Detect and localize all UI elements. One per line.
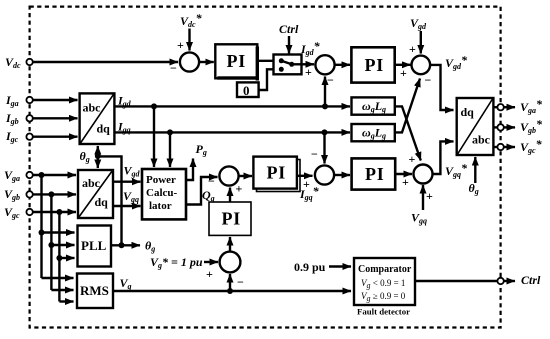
wire Vdc to sum1 <box>33 61 178 63</box>
wire Qg out <box>186 177 218 205</box>
arrow Vgc* <box>504 146 515 148</box>
svg-text:Ctrl: Ctrl <box>279 22 299 36</box>
block omega-g Lg lower <box>352 124 395 141</box>
wire sum4 to dq/abc (Vgq*) <box>433 141 454 174</box>
wire Pg out <box>186 159 193 181</box>
wire Vgc to RMS <box>59 300 73 302</box>
svg-text:+: + <box>402 175 409 189</box>
wire Igb to abc/dq <box>33 117 78 119</box>
svg-text:PI: PI <box>365 164 385 184</box>
wire Igd feedback up to sum2 <box>324 77 326 107</box>
wire 0.9pu into comparator <box>329 265 351 267</box>
svg-text:−: − <box>208 174 215 188</box>
wire Igc to abc/dq <box>33 135 78 137</box>
junction Vgc to PLL <box>56 255 62 261</box>
node Igc input <box>26 134 32 140</box>
block abc/dq voltage transform <box>78 170 113 218</box>
svg-text:+: + <box>305 65 312 79</box>
wire PI2 to sum3 <box>395 64 411 66</box>
wire Vgb* out <box>493 126 497 128</box>
wire Vga to abc/dq <box>33 174 76 176</box>
svg-text:dq: dq <box>461 105 475 119</box>
wire Igq feedback down to sumB <box>323 132 325 163</box>
op-block PI1 dc-voltage <box>215 44 259 80</box>
arrow Vga* <box>504 106 515 108</box>
wire Vgc* out <box>493 146 497 148</box>
svg-text:PI: PI <box>267 163 287 183</box>
wire Vgb drop <box>50 194 52 290</box>
svg-text:PI: PI <box>227 51 247 71</box>
wire omega-Lg lower cross up to sum3 <box>395 79 420 133</box>
wire sumB to PI3 <box>334 174 350 176</box>
arrow Ctrl out <box>504 280 515 282</box>
wire theta double arrow between transforms <box>97 146 99 157</box>
svg-text:−: − <box>425 73 432 87</box>
wire Igd row <box>114 105 350 107</box>
svg-text:+: + <box>400 66 407 80</box>
wire Vgc to abc/dq <box>33 211 76 213</box>
svg-text:Fault detector: Fault detector <box>357 307 410 317</box>
wire Igq down to power calculator <box>169 132 171 167</box>
block abc/dq current transform <box>80 93 115 144</box>
svg-text:Comparator: Comparator <box>358 264 412 275</box>
svg-text:abc: abc <box>83 101 102 115</box>
svg-text:0.9 pu: 0.9 pu <box>294 260 326 274</box>
wire Vg up to sum5 <box>229 274 231 291</box>
junction Vgb <box>48 191 54 197</box>
wire Vgb to RMS <box>51 289 73 291</box>
wire Vgd into sum3 <box>420 31 422 54</box>
svg-text:+: + <box>303 177 310 191</box>
wire sum1 to PI1 <box>199 61 214 63</box>
wire Vg* into sum5 <box>204 261 218 263</box>
node Vgc input <box>26 209 32 215</box>
arrow Vgb* <box>504 126 515 128</box>
wire PI1 to switch <box>259 60 281 62</box>
junction Igq feedback <box>322 129 328 135</box>
svg-text:RMS: RMS <box>80 283 109 298</box>
wire omega-Lg upper cross down to sum4 <box>395 106 421 160</box>
junction theta PLL <box>119 242 125 248</box>
wire Vgc drop <box>58 212 60 302</box>
svg-text:+: + <box>177 38 184 52</box>
wire theta to PLL branch <box>98 156 122 245</box>
wire Vga to PLL <box>42 231 75 233</box>
junction Vga <box>39 172 45 178</box>
svg-text:dq: dq <box>97 122 111 136</box>
block omega-g Lg upper <box>352 97 395 114</box>
wire Vga drop <box>40 175 42 278</box>
block comparator fault detector <box>354 258 415 305</box>
junction Igd to power calc <box>151 103 157 109</box>
node Iga input <box>26 97 32 103</box>
block PLL <box>78 226 112 267</box>
sumB q-current comparison <box>315 165 334 184</box>
wire Vgb to abc/dq <box>33 193 76 195</box>
wire VgPI to sumA <box>229 188 231 203</box>
wire Vgq into sum4 <box>422 185 424 210</box>
svg-text:−: − <box>311 147 318 161</box>
block dq/abc output transform <box>457 98 494 155</box>
block RMS <box>77 274 113 309</box>
node Vdc input <box>26 59 32 65</box>
sum5 Vg comparison <box>220 252 241 273</box>
node Vga input <box>26 172 32 178</box>
wire PLL theta out <box>111 244 140 246</box>
wire QPI to sumB <box>297 175 313 177</box>
wire Vgd to power calculator <box>113 180 141 182</box>
wire sum2 to PI2 <box>335 64 350 66</box>
node Vga* <box>497 104 503 110</box>
op-block PI reactive power <box>253 157 300 192</box>
block zero constant <box>237 82 259 98</box>
wire Vga to RMS <box>42 277 74 279</box>
svg-text:Vg* = 1 pu: Vg* = 1 pu <box>150 255 203 270</box>
wire sum3 to dq/abc (Vgd*) <box>430 65 453 110</box>
svg-text:PLL: PLL <box>81 238 107 253</box>
junction theta <box>95 153 101 159</box>
wire theta into dq/abc <box>474 157 476 183</box>
node Vgb input <box>26 191 32 197</box>
wire Vg row RMS to comparator <box>113 290 351 292</box>
svg-text:+: + <box>236 182 243 196</box>
svg-text:PI: PI <box>222 209 242 229</box>
svg-text:−: − <box>170 61 177 75</box>
op-block PI voltage loop <box>209 202 251 235</box>
junction Vg <box>227 288 233 294</box>
svg-text:−: − <box>327 73 334 87</box>
sumA reactive power comparison <box>219 166 238 185</box>
junction Vgb to PLL <box>48 242 54 248</box>
svg-text:+: + <box>426 189 433 203</box>
wire PI3 to sum4 <box>395 173 412 175</box>
svg-text:+: + <box>409 152 416 166</box>
svg-text:0: 0 <box>243 83 250 98</box>
sum2 d-current comparison <box>315 55 334 74</box>
svg-text:lator: lator <box>149 200 172 212</box>
sum1 Vdc comparison <box>180 52 199 71</box>
junction Vgc <box>56 209 62 215</box>
svg-text:Power: Power <box>146 174 176 186</box>
svg-text:−: − <box>237 275 244 289</box>
node Ctrl out <box>497 278 503 284</box>
wire Vgb to PLL <box>51 244 74 246</box>
wire Igq row <box>114 131 350 133</box>
junction Vga to PLL <box>39 230 45 236</box>
svg-text:abc: abc <box>472 133 491 147</box>
wire sum5 to VgPI <box>229 237 231 252</box>
svg-text:PI: PI <box>365 55 385 75</box>
wire Vdc* into sum1 <box>188 29 190 51</box>
svg-text:abc: abc <box>82 176 101 190</box>
svg-text:+: + <box>206 267 213 281</box>
junction Igd feedback <box>322 103 328 109</box>
wire Vgq to power calculator <box>113 205 141 207</box>
node Igb input <box>26 115 32 121</box>
wire Vga* out <box>493 106 497 108</box>
wire zero to switch <box>259 69 282 90</box>
op-block PI3 q-current <box>352 158 396 189</box>
junction Igq to power calc <box>167 129 173 135</box>
switch block Ctrl-selected <box>274 55 302 75</box>
wire switch to sum2 <box>301 63 314 65</box>
wire Ctrl into switch <box>288 36 290 54</box>
wire Vgc to PLL <box>59 257 74 259</box>
wire comparator to Ctrl node <box>415 280 497 282</box>
svg-text:+: + <box>409 42 416 56</box>
svg-text:Calcu-: Calcu- <box>146 187 178 199</box>
node Vgb* <box>497 124 503 130</box>
wire Igd down to power calculator <box>153 106 155 167</box>
svg-text:Ctrl: Ctrl <box>521 273 541 287</box>
wire sumA to QPI <box>239 175 252 177</box>
op-block PI2 d-current <box>351 47 394 82</box>
sum3 Vgd* <box>412 56 431 75</box>
node Vgc* <box>497 144 503 150</box>
svg-text:dq: dq <box>95 195 109 209</box>
wire Iga to abc/dq <box>33 99 78 101</box>
sum4 Vgq* <box>414 165 433 184</box>
block power calculator <box>142 169 186 219</box>
